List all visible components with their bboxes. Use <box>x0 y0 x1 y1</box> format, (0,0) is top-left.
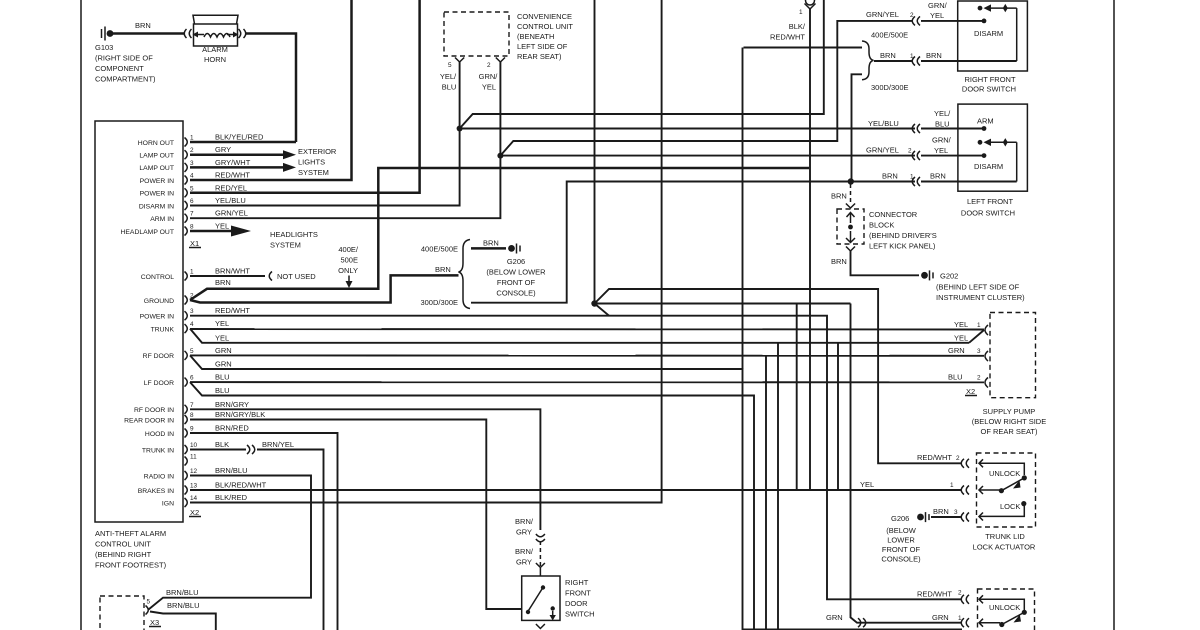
svg-text:5: 5 <box>190 348 194 355</box>
svg-text:(BENEATH: (BENEATH <box>517 32 554 41</box>
svg-text:3: 3 <box>977 348 981 355</box>
wire pin4 second YEL <box>190 329 969 343</box>
connector below right front door switch (cut) <box>536 624 545 629</box>
svg-text:BRN/GRY: BRN/GRY <box>215 400 249 409</box>
pin 3 LAMP OUT (X1) <box>139 158 250 172</box>
svg-text:14: 14 <box>190 495 198 502</box>
supply pump box <box>990 313 1036 398</box>
wire BLK/RED/WHT top connector down <box>809 9 811 490</box>
wire pin6 second BLU down at stair <box>190 382 754 630</box>
svg-text:BRN/WHT: BRN/WHT <box>215 267 250 276</box>
svg-text:BRN: BRN <box>930 172 946 181</box>
pin 12 RADIO IN (X2) <box>144 466 248 480</box>
anti-theft alarm control unit box <box>95 121 183 522</box>
connector X3 box (bottom left, cut) <box>100 596 144 630</box>
svg-text:GRY: GRY <box>516 528 532 537</box>
svg-text:BLU: BLU <box>215 373 230 382</box>
svg-text:ONLY: ONLY <box>338 266 358 275</box>
pin 2 GROUND (X2) <box>144 293 194 305</box>
svg-text:EXTERIOR: EXTERIOR <box>298 147 337 156</box>
alarm horn <box>184 15 246 46</box>
switch trunk actuator unlock <box>989 469 1027 493</box>
svg-text:REAR SEAT): REAR SEAT) <box>517 52 562 61</box>
svg-text:YEL: YEL <box>215 319 229 328</box>
pin 3 POWER IN (X2) <box>140 306 251 320</box>
svg-text:3: 3 <box>190 160 194 167</box>
svg-text:YEL: YEL <box>215 222 229 231</box>
connector block <box>837 209 864 244</box>
svg-text:YEL: YEL <box>954 320 968 329</box>
wire GRN/YEL to left front door switch DISARM <box>500 155 915 157</box>
pin 3 trunk actuator BRN from G206 <box>917 512 929 522</box>
wire pin4 RED/WHT up off top <box>190 0 352 180</box>
node bundle fan junction <box>591 300 597 306</box>
svg-text:GRN: GRN <box>948 346 965 355</box>
svg-text:300D/300E: 300D/300E <box>871 83 909 92</box>
left frame line <box>80 0 82 630</box>
svg-text:1: 1 <box>950 482 954 489</box>
svg-text:(BELOW LOWER: (BELOW LOWER <box>486 268 546 277</box>
pin 7 RF DOOR IN (X2) <box>134 400 249 414</box>
svg-text:BRAKES IN: BRAKES IN <box>138 488 174 495</box>
svg-text:400E/: 400E/ <box>338 245 359 254</box>
svg-text:CONTROL UNIT: CONTROL UNIT <box>517 22 573 31</box>
svg-text:TRUNK IN: TRUNK IN <box>142 447 174 454</box>
arrow headlights system <box>231 226 251 237</box>
svg-text:GRY/WHT: GRY/WHT <box>215 158 251 167</box>
svg-text:YEL: YEL <box>934 146 948 155</box>
pin 2 supply pump <box>985 378 988 388</box>
wire BRN G103 to alarm horn <box>113 32 185 35</box>
svg-text:REAR DOOR IN: REAR DOOR IN <box>124 417 174 424</box>
svg-text:X3: X3 <box>150 618 159 627</box>
node BRN junction <box>848 178 854 184</box>
pin 1 HORN OUT (X1) <box>138 133 264 147</box>
wire pin4 TRUNK YEL to supply pump pin1 <box>190 328 984 331</box>
svg-text:BRN: BRN <box>926 51 942 60</box>
svg-text:(BELOW RIGHT SIDE: (BELOW RIGHT SIDE <box>972 417 1046 426</box>
svg-text:YEL/BLU: YEL/BLU <box>868 119 899 128</box>
wire 300D/300E BRN over to left front door switch <box>471 182 915 303</box>
svg-text:500E: 500E <box>340 256 358 265</box>
model brace right (400E/500E + 300D/300E merge to BRN) <box>862 41 874 80</box>
svg-text:HOOD IN: HOOD IN <box>145 431 174 438</box>
svg-text:BRN/: BRN/ <box>515 517 534 526</box>
wire fan branch 3 joining pin3 run <box>595 304 610 316</box>
svg-text:LF DOOR: LF DOOR <box>144 380 174 387</box>
svg-text:BRN: BRN <box>880 51 896 60</box>
pin 5 convenience unit <box>455 58 464 63</box>
svg-text:TRUNK: TRUNK <box>151 326 175 333</box>
svg-text:(BEHIND LEFT SIDE OF: (BEHIND LEFT SIDE OF <box>936 283 1020 292</box>
wire vertical x742 brace to bottom <box>744 47 863 49</box>
wire second BRN/BLU down off bottom <box>150 612 216 630</box>
right frame line <box>1113 0 1115 630</box>
connector X2 label <box>189 508 201 517</box>
svg-text:CONSOLE): CONSOLE) <box>496 289 536 298</box>
svg-text:LOCK: LOCK <box>1000 502 1020 511</box>
convenience control unit <box>444 12 509 56</box>
svg-text:DOOR: DOOR <box>565 599 588 608</box>
svg-text:8: 8 <box>190 224 194 231</box>
wire GRN/YEL into left front door switch <box>921 155 984 157</box>
ground G202 <box>921 270 933 280</box>
wire pin8 BRN/GRY/BLK <box>190 420 522 610</box>
left front door switch box <box>958 104 1028 191</box>
svg-text:BLK/YEL/RED: BLK/YEL/RED <box>215 133 264 142</box>
arrow exterior lights 2 <box>283 163 296 172</box>
svg-text:RADIO IN: RADIO IN <box>144 473 174 480</box>
svg-text:2: 2 <box>908 148 912 155</box>
pin 10 TRUNK IN (X2) <box>142 440 229 454</box>
svg-text:BRN/BLU: BRN/BLU <box>215 466 248 475</box>
wire pin9 BRN/RED down off bottom <box>190 433 338 630</box>
wire BLK/RED/WHT brace vertical <box>190 489 962 491</box>
svg-text:1: 1 <box>799 9 803 16</box>
svg-text:YEL: YEL <box>860 480 874 489</box>
svg-text:BRN: BRN <box>831 192 847 201</box>
wire YEL/BLU to left front door switch ARM <box>460 128 915 130</box>
svg-text:FRONT OF: FRONT OF <box>497 278 536 287</box>
wire pin10 BLK <box>190 449 246 451</box>
svg-text:BLOCK: BLOCK <box>869 221 894 230</box>
wire pin5 GRN to supply pump pin3 <box>190 354 984 356</box>
svg-text:HORN OUT: HORN OUT <box>138 140 174 147</box>
svg-text:2: 2 <box>487 62 491 69</box>
svg-text:300D/300E: 300D/300E <box>420 298 458 307</box>
svg-text:2: 2 <box>956 455 960 462</box>
wire BRN bundle from top edge <box>594 0 596 304</box>
bottom unlock actuator box <box>978 589 1035 630</box>
wire BRN merged to right front door switch pin1 <box>874 60 913 62</box>
svg-text:RED/WHT: RED/WHT <box>770 33 805 42</box>
svg-text:GRN/: GRN/ <box>928 1 948 10</box>
svg-text:INSTRUMENT CLUSTER): INSTRUMENT CLUSTER) <box>936 293 1025 302</box>
wire 300D/300E arm to BRN junction <box>852 74 863 181</box>
wire fan branch 2 <box>595 303 851 305</box>
svg-text:BRN/GRY/BLK: BRN/GRY/BLK <box>215 410 265 419</box>
wire BRN into right front door switch <box>921 60 1017 62</box>
svg-text:X2: X2 <box>190 508 199 517</box>
svg-text:LAMP OUT: LAMP OUT <box>139 165 174 172</box>
svg-text:GRN/YEL: GRN/YEL <box>215 209 248 218</box>
svg-text:RED/WHT: RED/WHT <box>917 453 952 462</box>
svg-text:SWITCH: SWITCH <box>565 610 595 619</box>
svg-text:BLU: BLU <box>948 373 963 382</box>
right front door switch box (bottom) <box>522 576 560 620</box>
svg-text:RIGHT FRONT: RIGHT FRONT <box>964 75 1016 84</box>
switch contact right front door switch <box>978 4 1017 61</box>
wire BRN dashed to connector block <box>850 184 852 205</box>
svg-text:ALARM: ALARM <box>202 45 228 54</box>
svg-text:ARM: ARM <box>977 117 994 126</box>
wire pin5 RED/YEL up off top <box>190 0 420 193</box>
pin 7 ARM IN (X1) <box>150 209 248 223</box>
pin 11 (nc) (X2) <box>185 454 198 466</box>
svg-text:10: 10 <box>190 442 198 449</box>
pin 8 HEADLAMP OUT (X1) <box>120 222 229 236</box>
pin 14 IGN (X2) <box>162 493 248 507</box>
svg-text:POWER IN: POWER IN <box>140 191 174 198</box>
svg-text:RF DOOR IN: RF DOOR IN <box>134 407 174 414</box>
wire GRN/YEL diagonal branch to right front door switch <box>500 21 913 156</box>
pin 8 REAR DOOR IN (X2) <box>124 410 265 424</box>
svg-text:2: 2 <box>190 147 194 154</box>
svg-text:LOWER: LOWER <box>887 536 915 545</box>
arrow exterior lights 1 <box>283 150 296 159</box>
svg-text:6: 6 <box>190 198 194 205</box>
svg-text:BLU: BLU <box>442 83 457 92</box>
svg-text:GRN: GRN <box>215 360 232 369</box>
connector X1 label <box>189 239 201 248</box>
svg-text:GRN/: GRN/ <box>479 72 499 81</box>
svg-text:4: 4 <box>190 321 194 328</box>
svg-text:BRN/BLU: BRN/BLU <box>166 588 199 597</box>
svg-text:9: 9 <box>190 426 194 433</box>
svg-text:5: 5 <box>448 62 452 69</box>
svg-text:1: 1 <box>977 322 981 329</box>
svg-text:HEADLIGHTS: HEADLIGHTS <box>270 230 318 239</box>
ground G103 <box>102 27 114 41</box>
svg-text:2: 2 <box>977 375 981 382</box>
pin 2 LAMP OUT (X1) <box>139 145 231 159</box>
svg-text:BRN: BRN <box>435 265 451 274</box>
svg-text:HORN: HORN <box>204 55 226 64</box>
svg-text:BRN/YEL: BRN/YEL <box>262 440 294 449</box>
svg-text:RF DOOR: RF DOOR <box>143 353 174 360</box>
svg-text:CONVENIENCE: CONVENIENCE <box>517 12 572 21</box>
pin 4 TRUNK (X2) <box>151 319 230 333</box>
svg-text:SUPPLY PUMP: SUPPLY PUMP <box>983 407 1036 416</box>
svg-text:BLK: BLK <box>215 440 229 449</box>
svg-text:LIGHTS: LIGHTS <box>298 158 325 167</box>
wire BRN to G206 console ground <box>471 247 506 250</box>
pin 1 CONTROL (X2) <box>141 267 251 281</box>
ground G206 (console) <box>508 244 520 254</box>
pin 5 RF DOOR (X2) <box>143 346 232 360</box>
svg-text:X1: X1 <box>190 239 199 248</box>
wire pin1 BLK/YEL/RED <box>190 141 296 144</box>
svg-text:FRONT OF: FRONT OF <box>882 545 921 554</box>
svg-text:RIGHT: RIGHT <box>565 578 589 587</box>
svg-text:IGN: IGN <box>162 500 174 507</box>
svg-text:LEFT SIDE OF: LEFT SIDE OF <box>517 42 568 51</box>
svg-text:3: 3 <box>954 509 958 516</box>
wire ground pin2 BRN upper branch <box>190 168 809 300</box>
wire pin8 YEL to headlights <box>190 230 232 233</box>
svg-text:400E/500E: 400E/500E <box>871 31 908 40</box>
pin 2 convenience unit <box>496 58 505 63</box>
pin 1 supply pump <box>985 325 988 335</box>
connector inline right front door switch pin1 <box>912 57 920 66</box>
svg-text:BRN: BRN <box>483 239 499 248</box>
svg-text:CONSOLE): CONSOLE) <box>881 555 921 564</box>
svg-text:400E/500E: 400E/500E <box>421 245 458 254</box>
svg-text:7: 7 <box>190 402 194 409</box>
svg-text:BLU: BLU <box>935 120 950 129</box>
model split brace 400E/500E vs 300D/300E <box>459 240 471 309</box>
svg-text:DOOR SWITCH: DOOR SWITCH <box>961 209 1015 218</box>
wire stair tee GRN down <box>765 356 767 630</box>
svg-text:UNLOCK: UNLOCK <box>989 469 1020 478</box>
svg-text:G206: G206 <box>507 257 525 266</box>
svg-text:2: 2 <box>958 590 962 597</box>
wire pin3 GRY/WHT to exterior lights <box>190 166 284 169</box>
svg-text:BRN: BRN <box>215 278 231 287</box>
pin 4 POWER IN (X1) <box>140 171 251 185</box>
svg-text:ANTI-THEFT ALARM: ANTI-THEFT ALARM <box>95 529 166 538</box>
svg-text:YEL: YEL <box>215 333 229 342</box>
svg-text:GRY: GRY <box>516 558 532 567</box>
svg-text:BRN: BRN <box>831 257 847 266</box>
svg-text:BLK/RED/WHT: BLK/RED/WHT <box>215 481 267 490</box>
svg-text:GRN: GRN <box>826 613 843 622</box>
connector inline right front door switch pin2 <box>912 16 920 25</box>
svg-text:GRN: GRN <box>932 613 949 622</box>
svg-text:BRN/RED: BRN/RED <box>215 424 249 433</box>
svg-text:POWER IN: POWER IN <box>140 178 174 185</box>
svg-text:3: 3 <box>190 308 194 315</box>
svg-text:SYSTEM: SYSTEM <box>298 168 329 177</box>
svg-text:LEFT FRONT: LEFT FRONT <box>967 197 1014 206</box>
svg-text:HEADLAMP OUT: HEADLAMP OUT <box>120 229 174 236</box>
svg-text:LAMP OUT: LAMP OUT <box>139 153 174 160</box>
pin 3 supply pump <box>985 351 988 361</box>
svg-text:YEL: YEL <box>954 334 968 343</box>
svg-text:(BEHIND DRIVER'S: (BEHIND DRIVER'S <box>869 231 937 240</box>
wire control pin1 BRN/WHT <box>190 275 265 277</box>
svg-text:BRN: BRN <box>882 172 898 181</box>
wire GRN/YEL into right front door switch <box>921 20 984 22</box>
svg-text:6: 6 <box>190 375 194 382</box>
wire YEL diagonal into supply pump pin1 <box>969 330 984 343</box>
svg-text:BLU: BLU <box>215 386 230 395</box>
svg-text:4: 4 <box>190 173 194 180</box>
connector X2 supply pump <box>965 387 977 396</box>
switch contact left front door switch <box>978 126 1017 181</box>
svg-text:(BEHIND RIGHT: (BEHIND RIGHT <box>95 550 152 559</box>
wire BRN/YEL down off bottom <box>257 450 324 630</box>
connector pin10 inline <box>247 445 255 454</box>
svg-text:G103: G103 <box>95 43 113 52</box>
wire YEL/BLU into left front door switch <box>921 128 984 130</box>
svg-text:BLK/: BLK/ <box>789 22 806 31</box>
svg-text:YEL/BLU: YEL/BLU <box>215 196 246 205</box>
connector inline left front door switch DISARM <box>912 151 920 160</box>
svg-text:8: 8 <box>190 412 194 419</box>
label 400E/500E ONLY with arrow <box>338 245 359 288</box>
wire fan branch 1 to trunk lid actuator RED/WHT <box>595 289 963 463</box>
svg-text:UNLOCK: UNLOCK <box>989 603 1020 612</box>
wire pin7 GRN/YEL to convenience unit pin2 <box>190 62 500 218</box>
svg-text:OF REAR SEAT): OF REAR SEAT) <box>981 427 1038 436</box>
wire vertical x797 <box>796 304 798 491</box>
svg-text:BRN: BRN <box>135 21 151 30</box>
svg-text:POWER IN: POWER IN <box>140 314 174 321</box>
svg-text:GRY: GRY <box>215 145 231 154</box>
wire BRN into left front door switch <box>921 181 1017 183</box>
wire YEL/BLU diagonal branch <box>460 0 824 129</box>
pin 5 POWER IN (X1) <box>140 183 247 197</box>
svg-text:(RIGHT SIDE OF: (RIGHT SIDE OF <box>95 54 153 63</box>
wire BRN connector block to G202 <box>846 247 855 252</box>
trunk lid lock actuator box <box>977 453 1036 527</box>
svg-text:LEFT KICK PANEL): LEFT KICK PANEL) <box>869 242 936 251</box>
wire pin6 BLU to supply pump pin2 <box>190 381 984 383</box>
switch trunk actuator lock <box>1000 501 1026 511</box>
node junction GRN/YEL <box>497 153 503 159</box>
svg-text:TRUNK LID: TRUNK LID <box>985 532 1025 541</box>
svg-text:11: 11 <box>190 454 197 461</box>
svg-text:13: 13 <box>190 483 198 490</box>
svg-text:RED/WHT: RED/WHT <box>215 171 250 180</box>
svg-text:GRN/: GRN/ <box>932 136 952 145</box>
svg-text:5: 5 <box>190 185 194 192</box>
pin 6 DISARM IN (X1) <box>139 196 246 210</box>
svg-text:1: 1 <box>190 269 194 276</box>
svg-text:G202: G202 <box>940 272 958 281</box>
pin 6 LF DOOR (X2) <box>144 373 230 387</box>
right front door switch box <box>958 1 1028 71</box>
wire pin14 BLK/RED up to top edge <box>190 0 662 503</box>
svg-text:(BELOW: (BELOW <box>886 526 917 535</box>
wire pin2 GRY to exterior lights <box>190 153 284 156</box>
svg-text:RED/YEL: RED/YEL <box>215 183 247 192</box>
connector inline left front door switch pin1 <box>912 177 920 186</box>
svg-text:DISARM IN: DISARM IN <box>139 203 174 210</box>
wire GRN branch down to bottom unlock <box>851 304 963 623</box>
svg-text:BLK/RED: BLK/RED <box>215 493 248 502</box>
wire ground pin2 BRN lower branch to model brace <box>190 275 459 302</box>
svg-text:SYSTEM: SYSTEM <box>270 241 301 250</box>
wire stair tee YEL down <box>777 343 779 630</box>
svg-text:X2: X2 <box>966 387 975 396</box>
svg-text:12: 12 <box>190 468 198 475</box>
connector X3 label <box>149 618 161 627</box>
svg-text:CONTROL: CONTROL <box>141 274 174 281</box>
svg-text:FRONT FOOTREST): FRONT FOOTREST) <box>95 561 167 570</box>
svg-text:YEL/: YEL/ <box>934 109 951 118</box>
svg-text:NOT USED: NOT USED <box>277 272 316 281</box>
svg-text:G206: G206 <box>891 514 909 523</box>
svg-text:YEL: YEL <box>482 83 496 92</box>
wire pin3 RED/WHT long run to bottom unlock actuator <box>190 316 962 600</box>
connector NOT USED <box>269 272 272 281</box>
svg-text:CONNECTOR: CONNECTOR <box>869 210 918 219</box>
svg-text:RED/WHT: RED/WHT <box>917 590 952 599</box>
svg-text:ARM IN: ARM IN <box>150 216 174 223</box>
wire alarm horn to pin1 vertical <box>246 34 296 143</box>
svg-text:7: 7 <box>190 211 194 218</box>
svg-text:YEL/: YEL/ <box>440 72 457 81</box>
svg-text:5: 5 <box>147 599 151 606</box>
svg-text:DISARM: DISARM <box>974 29 1003 38</box>
svg-text:GROUND: GROUND <box>144 298 174 305</box>
svg-text:RED/WHT: RED/WHT <box>215 306 250 315</box>
switch bottom actuator unlock <box>989 603 1027 627</box>
svg-text:1: 1 <box>190 135 194 142</box>
svg-text:FRONT: FRONT <box>565 589 591 598</box>
svg-text:GRN/YEL: GRN/YEL <box>866 146 899 155</box>
wire pin6 YEL/BLU to convenience unit pin5 <box>190 62 460 206</box>
svg-text:BRN/: BRN/ <box>515 547 534 556</box>
svg-text:LOCK ACTUATOR: LOCK ACTUATOR <box>973 543 1036 552</box>
svg-text:YEL: YEL <box>930 11 944 20</box>
wire pin5 second GRN down at stair <box>190 355 743 630</box>
wire pin7 BRN/GRY to right front door switch <box>190 409 540 530</box>
svg-text:CONTROL UNIT: CONTROL UNIT <box>95 540 151 549</box>
svg-text:GRN: GRN <box>215 346 232 355</box>
